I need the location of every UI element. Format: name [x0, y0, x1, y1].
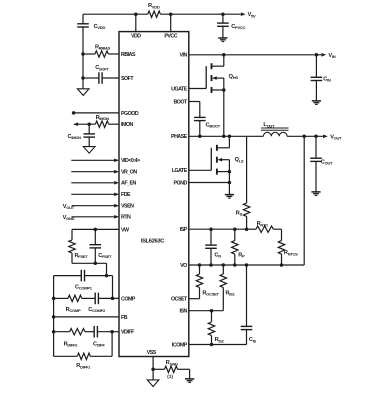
svg-text:RVDD: RVDD: [148, 3, 160, 9]
svg-text:RDIFF1: RDIFF1: [76, 363, 91, 369]
node SOFT junction: [81, 76, 85, 80]
svg-text:COMP: COMP: [121, 296, 136, 302]
node IMON left arrow: [73, 122, 78, 126]
wire OCSET: [189, 298, 200, 300]
wire PVCC pin drop: [170, 14, 172, 31]
op-amp U1 ISL6263C chip body: [119, 32, 189, 357]
node left rail COMP: [52, 297, 56, 301]
wire left rail: [53, 276, 55, 357]
wire VOUT row after inductor: [287, 135, 323, 137]
node CIMON junction: [87, 122, 91, 126]
wire FSET bottom rail: [72, 262, 107, 264]
wire VOUT to VO rail: [303, 136, 305, 265]
svg-text:RBIAS: RBIAS: [121, 52, 136, 58]
resistor RIS1: [222, 265, 224, 274]
ground below CIMON: [83, 147, 95, 154]
node CCOMP1 right junction: [105, 274, 109, 278]
node ROCSET top: [198, 263, 202, 267]
svg-text:RNTCS: RNTCS: [284, 250, 298, 256]
wire UGATE: [189, 88, 206, 90]
svg-text:CDIFF: CDIFF: [93, 342, 105, 348]
capacitor CIS: [246, 265, 248, 326]
wire PGOOD: [74, 112, 119, 114]
svg-text:VOUT: VOUT: [63, 204, 75, 210]
svg-text:VDIFF: VDIFF: [121, 330, 135, 336]
wire VSS drop: [152, 357, 154, 370]
svg-text:ISN: ISN: [179, 309, 187, 315]
node VSS junction: [151, 368, 155, 372]
node CIN junction: [315, 53, 319, 57]
capacitor CN: [210, 229, 212, 245]
svg-text:(1): (1): [167, 374, 173, 379]
wire COMP1 rail to COMP pin: [107, 275, 113, 277]
ground below COUT: [311, 191, 320, 193]
capacitor CDIFF: [93, 326, 95, 338]
svg-text:VW: VW: [121, 227, 129, 233]
resistor RCOMP: [68, 295, 82, 301]
resistor RDIFF2: [70, 329, 85, 335]
svg-text:CPVCC: CPVCC: [231, 24, 245, 30]
wire VO row: [189, 264, 304, 266]
svg-text:LGATE: LGATE: [172, 168, 188, 174]
node RP top junction: [233, 227, 237, 231]
resistor RGND: [153, 368, 164, 370]
inductor LOUT: [261, 127, 289, 129]
resistor RS: [246, 136, 248, 203]
svg-text:BOOT: BOOT: [173, 99, 188, 105]
svg-text:VGND: VGND: [63, 215, 75, 221]
svg-text:VIN: VIN: [179, 53, 187, 59]
net VOUT arrow: [323, 135, 328, 139]
node CFSET bottom junction: [94, 262, 98, 266]
node COUT junction: [314, 135, 318, 139]
svg-text:RCOMP: RCOMP: [66, 307, 81, 313]
svg-text:VSEN: VSEN: [121, 204, 134, 210]
capacitor CFSET: [94, 229, 96, 244]
svg-text:LOUT: LOUT: [263, 122, 275, 128]
svg-text:RP: RP: [238, 252, 245, 258]
svg-text:ROCSET: ROCSET: [202, 291, 219, 297]
node RP bottom: [233, 263, 237, 267]
wire ICOMP row: [189, 344, 247, 346]
wire VDIFF row: [54, 331, 70, 333]
svg-text:IMON: IMON: [121, 122, 134, 128]
ground below CIN: [312, 100, 321, 102]
transistor QHS: [205, 66, 207, 88]
ground below SOFT: [77, 89, 89, 96]
wire BOOT: [189, 101, 200, 103]
svg-text:V5V: V5V: [248, 12, 256, 18]
wire LGATE: [189, 169, 212, 171]
svg-text:CIN: CIN: [323, 77, 331, 83]
svg-text:PVCC: PVCC: [164, 34, 177, 40]
svg-text:VIN: VIN: [328, 53, 335, 59]
svg-text:ISL6263C: ISL6263C: [141, 239, 165, 245]
wire top rail left of RVDD: [83, 13, 148, 15]
resistor RRBIAS: [95, 51, 108, 57]
wire RBIAS row: [83, 53, 95, 55]
wire IMON row: [74, 123, 95, 125]
wire ISN row: [189, 310, 224, 312]
node CIS top: [245, 263, 249, 267]
svg-text:UGATE: UGATE: [171, 86, 188, 92]
svg-text:QHS: QHS: [229, 74, 239, 80]
resistor ROCSET: [199, 265, 201, 274]
svg-text:ICOMP: ICOMP: [172, 342, 188, 348]
wire FSET rail to COMP1 rail: [106, 263, 108, 275]
svg-text:COUT: COUT: [321, 160, 333, 166]
node RIS1 top: [222, 263, 226, 267]
svg-text:VSS: VSS: [147, 350, 157, 356]
capacitor CVDD: [82, 14, 84, 24]
svg-text:RIS1: RIS1: [226, 291, 236, 297]
node left rail VDIFF: [52, 330, 56, 334]
node CFSET top junction: [94, 228, 98, 232]
node VOUT rail junction: [302, 135, 306, 139]
capacitor CIN: [315, 55, 317, 78]
node left rail FB: [52, 315, 56, 319]
svg-text:CFSET: CFSET: [98, 253, 112, 259]
svg-text:VR_ON: VR_ON: [121, 170, 137, 176]
svg-text:RTN: RTN: [121, 215, 131, 221]
wire VDD pin drop: [135, 14, 137, 31]
svg-text:CCOMP2: CCOMP2: [88, 307, 106, 313]
capacitor CSOFT: [83, 77, 99, 79]
node CBOOT bottom junction: [198, 135, 202, 139]
wire VID input: [71, 159, 114, 161]
wire PGND: [189, 182, 230, 184]
ground right of RGND: [185, 378, 194, 380]
svg-text:RS: RS: [236, 211, 243, 217]
svg-text:QLS: QLS: [235, 157, 244, 163]
node VDIFF junction: [110, 330, 114, 334]
svg-text:VDD: VDD: [131, 34, 141, 40]
resistor RNTC: [247, 228, 256, 230]
wire PHASE row: [189, 135, 264, 137]
svg-text:RGND: RGND: [166, 360, 178, 366]
node QLS drain junction: [228, 135, 232, 139]
net VIN arrow: [321, 53, 326, 57]
node PVCC top junction: [169, 12, 173, 16]
transistor QLS: [210, 148, 212, 171]
resistor RIS2: [211, 311, 213, 322]
svg-text:PHASE: PHASE: [171, 134, 188, 140]
node RS bottom junction: [245, 227, 249, 231]
svg-text:ISP: ISP: [180, 227, 188, 233]
capacitor CCOMP2: [94, 293, 96, 305]
svg-text:CN: CN: [214, 252, 221, 258]
svg-text:FDE: FDE: [121, 192, 131, 198]
node RIS2 bottom junction: [210, 343, 214, 347]
resistor RVDD: [148, 11, 161, 17]
net V5V arrow: [241, 12, 246, 16]
svg-text:RFSET: RFSET: [75, 253, 89, 259]
svg-text:CIMON: CIMON: [68, 134, 82, 140]
wire FDE input: [71, 193, 114, 195]
wire FB row: [54, 316, 119, 318]
ground below QLS: [225, 194, 234, 196]
capacitor CCOMP1: [54, 275, 82, 277]
resistor RDIFF1: [54, 355, 78, 357]
node RNTCS bottom: [280, 263, 284, 267]
ground below VSS: [152, 369, 154, 380]
svg-text:CCOMP1: CCOMP1: [75, 284, 93, 290]
node VDD top junction: [134, 12, 138, 16]
svg-text:CVDD: CVDD: [94, 24, 106, 30]
wire AF_EN input: [71, 182, 114, 184]
node QHS source junction: [222, 135, 226, 139]
svg-text:RIS2: RIS2: [215, 337, 225, 343]
node PGOOD left terminal: [72, 111, 76, 115]
svg-text:RIMON: RIMON: [96, 115, 110, 121]
node RBIAS junction: [81, 52, 85, 56]
svg-text:RDIFF2: RDIFF2: [64, 342, 79, 348]
wire VDIFF to RDIFF1 vertical: [111, 332, 113, 357]
svg-text:CSOFT: CSOFT: [95, 65, 109, 71]
svg-text:PGND: PGND: [173, 180, 187, 186]
node COMP junction: [111, 297, 115, 301]
capacitor CIMON: [88, 124, 90, 134]
capacitor CPVCC: [222, 14, 224, 23]
svg-text:CIS: CIS: [249, 337, 257, 343]
node RIS2 top junction: [210, 309, 214, 313]
svg-text:FB: FB: [121, 315, 128, 321]
capacitor CBOOT: [199, 102, 201, 118]
svg-text:VO: VO: [180, 263, 187, 269]
node CN top junction: [209, 227, 213, 231]
svg-text:CBOOT: CBOOT: [206, 123, 221, 129]
wire SOFT junction to ground: [82, 78, 84, 89]
wire ISP row: [189, 228, 247, 230]
wire VIN row: [189, 54, 321, 56]
resistor RP: [234, 229, 236, 240]
node CN bottom: [209, 263, 213, 267]
wire top rail right of RVDD: [160, 13, 240, 15]
svg-text:RNTC: RNTC: [257, 221, 269, 227]
svg-text:OCSET: OCSET: [171, 297, 188, 303]
node QHS drain junction: [222, 53, 226, 57]
resistor RFSET: [71, 229, 73, 240]
capacitor COUT: [315, 136, 317, 158]
resistor RIMON: [95, 121, 108, 127]
wire RGND to ground: [189, 369, 191, 379]
node CPVCC junction: [221, 12, 225, 16]
ground below CPVCC: [218, 37, 227, 39]
wire COMP row: [54, 297, 68, 299]
wire RBIAS to SOFT vertical: [82, 54, 84, 78]
node PGND junction: [228, 181, 232, 185]
svg-text:PGOOD: PGOOD: [121, 111, 139, 117]
svg-text:VOUT: VOUT: [330, 135, 342, 141]
svg-text:SOFT: SOFT: [121, 76, 134, 82]
svg-text:RRBIAS: RRBIAS: [95, 45, 111, 51]
wire VW row: [72, 228, 119, 230]
svg-text:AF_EN: AF_EN: [121, 181, 137, 187]
svg-text:VID<0:4>: VID<0:4>: [121, 158, 140, 164]
resistor RNTCS: [281, 229, 283, 240]
wire VR_ON input: [71, 171, 114, 173]
